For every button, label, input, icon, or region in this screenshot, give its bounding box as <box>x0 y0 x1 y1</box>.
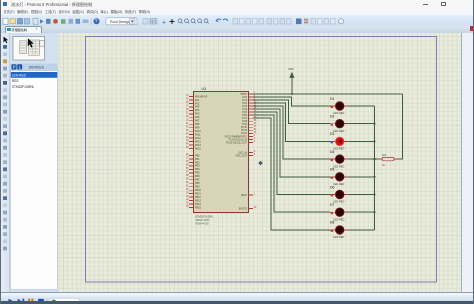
svg-text:Root Design: Root Design <box>110 20 130 24</box>
U3 value text <box>195 215 213 226</box>
svg-text:R1: R1 <box>382 153 386 157</box>
wire PC0 to LED D1 <box>253 97 331 106</box>
right scrollbar <box>461 33 474 292</box>
pin-state marker D8 <box>330 230 332 232</box>
cut/copy/paste group <box>233 19 238 25</box>
canvas svg placeholder <box>58 33 461 292</box>
right group <box>296 19 302 25</box>
wire LED D6 to bus <box>344 194 374 196</box>
wire PC5 to LED D6 <box>253 112 331 194</box>
svg-text:LED-RED: LED-RED <box>333 236 344 239</box>
svg-text:?: ? <box>95 19 98 25</box>
title bar <box>0 0 474 8</box>
svg-text:PA15: PA15 <box>195 148 201 151</box>
wire LED D5 to bus <box>344 176 374 178</box>
origin marker <box>258 161 263 166</box>
wire PC4 to LED D5 <box>253 109 331 177</box>
LED D4 <box>330 150 349 168</box>
U3 left pin names <box>195 95 208 209</box>
pin-state marker D7 <box>330 212 332 214</box>
wire NRST/VDD rail horizontal <box>253 93 403 95</box>
svg-text:PB15: PB15 <box>195 207 202 210</box>
wire LED D7 to bus <box>344 211 374 213</box>
wire LED D3 to bus <box>344 140 374 142</box>
svg-text:STM32F103R6: STM32F103R6 <box>12 85 34 89</box>
wire LED cathode bus vertical <box>373 106 375 230</box>
junction bus row D4 <box>373 158 375 160</box>
LED D2 <box>330 115 349 133</box>
svg-text:LED-RED: LED-RED <box>333 165 344 168</box>
pin-state marker D3 <box>330 141 332 143</box>
junction VDD rail <box>290 93 292 95</box>
U3 left pin numbers <box>185 95 188 208</box>
list <box>11 71 58 290</box>
wire bus to R1 <box>374 158 382 160</box>
U3 right pin numbers <box>253 93 256 210</box>
wire PC2 to LED D3 <box>253 103 331 141</box>
svg-text:LED-RED: LED-RED <box>333 218 344 221</box>
svg-text:D8: D8 <box>330 221 334 225</box>
wire PC1 to LED D2 <box>253 100 331 124</box>
svg-text:D2: D2 <box>330 115 334 119</box>
pin-state marker D2 <box>330 124 332 126</box>
wire LED D2 to bus <box>344 123 374 125</box>
svg-text:OSC_OUT: OSC_OUT <box>235 154 247 157</box>
svg-text:LED-RED: LED-RED <box>333 112 344 115</box>
pin-state marker D5 <box>330 177 332 179</box>
wire PC7 to LED D8 <box>253 118 331 230</box>
IC U3 STM32F103R6 <box>193 87 248 213</box>
svg-text:VBAT: VBAT <box>240 194 247 197</box>
LED D1 <box>330 97 349 115</box>
file icons <box>3 18 8 24</box>
junction bus row D6 <box>373 193 375 195</box>
junction bus row D2 <box>373 123 375 125</box>
toolbar <box>0 15 474 28</box>
combo box <box>106 18 137 25</box>
junction bus row D5 <box>373 176 375 178</box>
U3 right pin names <box>224 93 247 210</box>
U3 left pins PA0-PA15 <box>189 96 194 148</box>
left mode toolbar strip <box>0 33 10 292</box>
wire LED D8 to bus <box>344 229 374 231</box>
svg-text:VDD: VDD <box>288 67 294 71</box>
status bar <box>0 292 474 302</box>
svg-text:LED-RED: LED-RED <box>333 130 344 133</box>
pin-state marker D1 <box>330 106 332 108</box>
LED D6 <box>330 185 349 203</box>
pin-state marker D6 <box>330 194 332 196</box>
U3 left pins PB0-PB15 <box>189 155 194 207</box>
svg-text:D4: D4 <box>330 150 334 154</box>
svg-text:BOOT0: BOOT0 <box>238 207 247 210</box>
wire PC6 to LED D7 <box>253 115 331 212</box>
svg-text:LED-RED: LED-RED <box>333 201 344 204</box>
wire LED D4 to bus <box>344 158 374 160</box>
svg-text:LED-RED: LED-RED <box>333 183 344 186</box>
svg-text:PC15-OSC32_OUT: PC15-OSC32_OUT <box>226 141 248 144</box>
mouse cursor <box>28 38 34 47</box>
menu bar <box>0 8 474 15</box>
sheet border <box>85 37 436 283</box>
LED D3 <box>330 132 349 150</box>
LED D7 <box>330 203 349 221</box>
window side borders <box>0 0 1 304</box>
bottom window edge <box>0 301 474 304</box>
U3 right pins <box>248 94 253 209</box>
svg-text:P: P <box>13 65 16 70</box>
svg-text:VDDA=VDD: VDDA=VDD <box>195 218 209 222</box>
red corner block <box>470 26 474 31</box>
svg-text:D7: D7 <box>330 203 334 207</box>
svg-text:RES: RES <box>12 79 19 83</box>
wire LED D1 to bus <box>344 105 374 107</box>
left panel <box>10 33 58 292</box>
svg-text:LED-RED: LED-RED <box>12 73 27 77</box>
mid icons <box>143 19 148 25</box>
svg-text:STM32F103R6: STM32F103R6 <box>195 215 213 219</box>
svg-text:D6: D6 <box>330 185 334 189</box>
svg-text:DEVICES: DEVICES <box>29 66 45 70</box>
svg-text:U3: U3 <box>201 87 206 91</box>
wire PC3 to LED D4 <box>253 106 331 159</box>
undo redo <box>216 19 221 21</box>
svg-text:VSSA=VSS: VSSA=VSS <box>195 222 209 226</box>
junction bus row D7 <box>373 211 375 213</box>
LED D8 <box>330 221 349 239</box>
resistor R1 <box>378 153 397 167</box>
svg-text:D1: D1 <box>330 97 334 101</box>
junction bus-R1 row D4 <box>373 158 375 160</box>
P L DEVICES bar <box>10 64 58 71</box>
svg-text:D3: D3 <box>330 132 334 136</box>
LED D5 <box>330 168 349 186</box>
power terminal VDD <box>288 67 294 94</box>
tab bar <box>0 26 474 34</box>
junction bus row D3 <box>373 140 375 142</box>
wire VDD rail vertical down to R1 <box>397 94 403 159</box>
svg-text:LED-RED: LED-RED <box>333 148 344 151</box>
pin-state marker D4 <box>330 159 332 161</box>
svg-text:D5: D5 <box>330 168 334 172</box>
preview window <box>13 37 45 61</box>
